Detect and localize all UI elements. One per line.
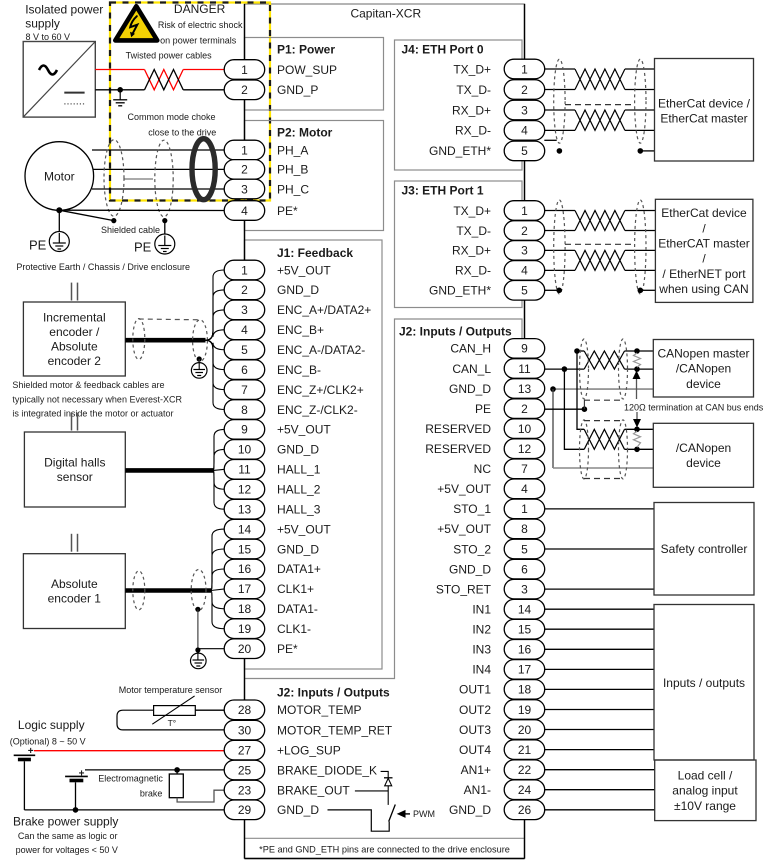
- EtherCat device box 1: [655, 59, 754, 162]
- halls fan wires: [214, 429, 225, 509]
- svg-text:/ EtherNET port: / EtherNET port: [662, 267, 746, 281]
- wire OUT2: [544, 709, 654, 711]
- svg-text:supply: supply: [25, 16, 60, 30]
- svg-text:8: 8: [241, 403, 248, 417]
- inputs outputs box: [654, 605, 754, 761]
- wire GND_D to switch: [328, 810, 390, 831]
- svg-text:encoder 2: encoder 2: [48, 354, 102, 368]
- pin J2-27: [224, 740, 265, 760]
- pin J2-20: [504, 720, 545, 740]
- termination arrow up: [633, 371, 641, 400]
- svg-text:Common mode choke: Common mode choke: [127, 112, 215, 122]
- wire PE1 drop: [58, 210, 60, 231]
- svg-text:device: device: [686, 377, 721, 391]
- svg-text:PE: PE: [29, 237, 47, 252]
- svg-text:ENC_Z-/CLK2-: ENC_Z-/CLK2-: [277, 403, 358, 417]
- svg-text:29: 29: [238, 803, 252, 817]
- svg-text:STO_1: STO_1: [453, 502, 491, 516]
- danger zone dashed border: [110, 3, 270, 201]
- svg-text:power for voltages < 50 V: power for voltages < 50 V: [16, 845, 118, 855]
- svg-text:5: 5: [521, 144, 528, 158]
- junction CAN_H resistor: [634, 348, 640, 354]
- J2 section L-shaped box: [245, 319, 523, 819]
- svg-text:Capitan-XCR: Capitan-XCR: [350, 6, 421, 20]
- CAN shield dashed bottom lower: [584, 478, 623, 480]
- svg-text:T°: T°: [168, 718, 177, 728]
- wire CAN_L to box: [625, 368, 654, 370]
- pin J2-5: [504, 539, 545, 559]
- wire J4 TX_D+: [544, 68, 654, 70]
- wire PE motor: [59, 209, 224, 211]
- svg-text:27: 27: [238, 743, 252, 757]
- junction on GND_P: [117, 87, 123, 93]
- junction CAN_L branch: [562, 366, 568, 372]
- wire PE shield stub: [583, 400, 585, 409]
- main box bottom edge black: [245, 858, 525, 860]
- encoder 1 shield ground: [191, 652, 207, 669]
- motor circle: [25, 142, 94, 211]
- safety controller box: [654, 503, 754, 596]
- CAN shield dashed bottom upper: [584, 399, 623, 401]
- wire CAN_H to box: [625, 350, 654, 352]
- thermistor symbol: [152, 696, 195, 724]
- pin J1-6: [224, 360, 265, 380]
- svg-text:Inputs / outputs: Inputs / outputs: [663, 676, 745, 690]
- CAN twisted pair upper: [584, 351, 624, 369]
- wire bottom to pin 29: [24, 809, 224, 811]
- svg-text:EtherCat device /: EtherCat device /: [658, 97, 751, 111]
- absolute encoder 1 box: [23, 554, 125, 629]
- junction shield 1: [111, 218, 116, 223]
- svg-text:5: 5: [241, 343, 248, 357]
- wire J4 RX_D-: [544, 129, 654, 131]
- encoder 2 shield drain dot: [197, 356, 202, 361]
- CAN shield ellipse low-right: [619, 420, 628, 479]
- svg-text:HALL_3: HALL_3: [277, 503, 321, 517]
- wire IN1: [544, 608, 654, 610]
- svg-text:3: 3: [521, 103, 528, 117]
- junction shield 2: [162, 218, 167, 223]
- svg-text:2: 2: [241, 283, 248, 297]
- EtherCat device box 2: [655, 199, 753, 302]
- svg-text:GND_D: GND_D: [277, 443, 319, 457]
- PE symbol 1: [49, 232, 69, 252]
- wire battery2 to bottom: [75, 782, 77, 810]
- termination arrow down: [633, 412, 641, 428]
- pin J2-10: [504, 419, 545, 439]
- motor cable shield ellipse 2: [155, 140, 173, 217]
- wire GND_P black: [95, 89, 224, 91]
- svg-text:J1: Feedback: J1: Feedback: [277, 246, 353, 260]
- pin P2-4: [224, 201, 265, 221]
- pins J4: [504, 59, 545, 161]
- svg-text:RX_D-: RX_D-: [455, 124, 491, 138]
- svg-text:24: 24: [518, 783, 532, 797]
- svg-text:ENC_A+/DATA2+: ENC_A+/DATA2+: [277, 303, 371, 317]
- wire PH_A: [92, 149, 225, 151]
- svg-text:PE*: PE*: [277, 642, 298, 656]
- J1 section box: [245, 240, 383, 669]
- wire BRAKE_OUT: [355, 790, 388, 792]
- junction battery2 bottom: [73, 807, 79, 813]
- svg-text:Safety controller: Safety controller: [661, 542, 748, 556]
- svg-text:IN1: IN1: [472, 603, 491, 617]
- wire OUT1: [544, 688, 654, 690]
- label Isolated power supply: [25, 3, 103, 31]
- svg-text:11: 11: [518, 362, 531, 376]
- svg-text:ENC_Z+/CLK2+: ENC_Z+/CLK2+: [277, 383, 364, 397]
- digital halls sensor box: [24, 432, 125, 507]
- CAN shield dashed top lower: [584, 420, 623, 422]
- CAN termination resistor upper: [634, 353, 641, 367]
- CAN shield ellipse low-left: [580, 420, 589, 479]
- svg-text:OUT4: OUT4: [459, 743, 491, 757]
- svg-text:TX_D-: TX_D-: [456, 83, 491, 97]
- pin J1-19: [224, 619, 265, 639]
- halls thick cable: [125, 468, 213, 473]
- svg-text:4: 4: [521, 124, 528, 138]
- pin J2-2: [504, 399, 545, 419]
- svg-text:4: 4: [241, 204, 248, 218]
- svg-text:18: 18: [518, 683, 532, 697]
- pin J1-4: [224, 320, 265, 340]
- pin J1-11: [224, 460, 265, 480]
- pin J1-14: [224, 519, 265, 539]
- wire J4 shield to device: [640, 150, 654, 152]
- svg-text:typically not necessary when E: typically not necessary when Everest-XCR: [12, 394, 182, 404]
- pins J3: [504, 201, 545, 300]
- svg-text:GND_ETH*: GND_ETH*: [429, 284, 491, 298]
- svg-text:10: 10: [238, 443, 252, 457]
- svg-text:RESERVED: RESERVED: [425, 442, 491, 456]
- encoder 1 shield ellipse right: [191, 570, 206, 611]
- svg-text:GND_D: GND_D: [277, 803, 319, 817]
- J4 shield dashed link: [565, 104, 634, 106]
- svg-text:1: 1: [521, 502, 528, 516]
- wire pin25 brake supply: [85, 769, 225, 771]
- svg-text:P2: Motor: P2: Motor: [277, 126, 333, 140]
- svg-text:15: 15: [238, 542, 252, 556]
- P1 section box: [245, 38, 384, 111]
- svg-text:9: 9: [521, 342, 528, 356]
- main box right edge black segments: [524, 4, 526, 859]
- pin P2-3: [224, 179, 265, 199]
- load cell box: [655, 760, 756, 821]
- encoder 2 shield drain wire: [198, 359, 200, 364]
- cable marks encoder 1: [72, 534, 78, 552]
- pin J2-29: [224, 800, 265, 820]
- wire J3 RX_D-: [544, 269, 655, 271]
- J3 shield dot right: [638, 288, 644, 294]
- wire CAN lower bottom to box: [625, 448, 654, 450]
- J4 section box: [395, 40, 523, 170]
- J4 twisted pair 1: [575, 69, 625, 90]
- wire brake top: [176, 770, 178, 774]
- svg-text:Motor: Motor: [44, 169, 75, 183]
- wire POW_SUP red: [95, 69, 224, 71]
- svg-text:Isolated power: Isolated power: [25, 3, 103, 17]
- pin J1-12: [224, 479, 265, 499]
- svg-text:1: 1: [241, 143, 248, 157]
- svg-text:*PE and GND_ETH pins are conne: *PE and GND_ETH pins are connected to th…: [259, 845, 510, 855]
- wire PE from pin 2: [544, 408, 584, 410]
- svg-text:15: 15: [518, 623, 532, 637]
- svg-text:Electromagnetic: Electromagnetic: [98, 774, 163, 784]
- svg-text:23: 23: [238, 783, 252, 797]
- svg-text:J3: ETH Port 1: J3: ETH Port 1: [402, 183, 484, 197]
- svg-text:is integrated inside the motor: is integrated inside the motor or actuat…: [12, 409, 173, 419]
- svg-text:CAN_H: CAN_H: [450, 342, 491, 356]
- svg-text:1: 1: [241, 263, 248, 277]
- svg-text:+5V_OUT: +5V_OUT: [277, 263, 331, 277]
- svg-text:3: 3: [521, 582, 528, 596]
- svg-text:+LOG_SUP: +LOG_SUP: [277, 743, 341, 757]
- pin J1-17: [224, 579, 265, 599]
- svg-text:CAN_L: CAN_L: [452, 362, 491, 376]
- wire J3 shield to device: [640, 289, 655, 291]
- wire STO_RET: [544, 588, 654, 590]
- svg-text:analog input: analog input: [672, 784, 738, 798]
- encoder 2 shield ellipse left: [133, 319, 145, 360]
- svg-text:PH_C: PH_C: [277, 182, 309, 196]
- wire STO_2: [544, 548, 654, 550]
- wire OUT4: [544, 749, 654, 751]
- svg-text:GND_D: GND_D: [277, 542, 319, 556]
- J3 shield dot left: [556, 288, 562, 294]
- wire brake to pin 23: [177, 790, 224, 802]
- svg-text:25: 25: [238, 763, 252, 777]
- pin J2-4: [504, 479, 545, 499]
- svg-text:TX_D+: TX_D+: [453, 62, 491, 76]
- pin J1-15: [224, 539, 265, 559]
- svg-text:1: 1: [521, 62, 528, 76]
- incremental encoder box: [23, 302, 125, 376]
- wire +LOG_SUP red: [34, 750, 225, 752]
- cable marks encoder 2: [72, 283, 78, 301]
- wire CAN lower top to box: [625, 428, 654, 430]
- svg-text:4: 4: [521, 482, 528, 496]
- pin J1-10: [224, 440, 265, 460]
- svg-text:3: 3: [241, 182, 248, 196]
- encoder 2 shield ground: [191, 363, 207, 379]
- svg-text:RX_D-: RX_D-: [455, 264, 491, 278]
- svg-text:2: 2: [241, 83, 248, 97]
- P2 section box: [245, 121, 384, 231]
- note separator line: [245, 837, 525, 839]
- wire AN1+: [544, 769, 654, 771]
- junction CAN_H branch: [574, 348, 580, 354]
- CANopen master box: [653, 340, 753, 398]
- wire IN4: [544, 668, 654, 670]
- svg-text:PWM: PWM: [413, 809, 435, 819]
- brake diode: [384, 778, 393, 805]
- svg-text:PH_B: PH_B: [277, 163, 308, 177]
- encoder 1 shield drain dot: [195, 607, 200, 612]
- svg-text:close to the drive: close to the drive: [148, 127, 216, 137]
- svg-text:14: 14: [518, 603, 532, 617]
- pin J2-19: [504, 700, 545, 720]
- svg-text:4: 4: [521, 264, 528, 278]
- svg-text:21: 21: [518, 743, 532, 757]
- svg-text:+: +: [79, 768, 85, 779]
- svg-text:(Optional) 8 ~ 50 V: (Optional) 8 ~ 50 V: [10, 736, 86, 746]
- wire CAN_H segment: [577, 350, 584, 352]
- svg-text:HALL_1: HALL_1: [277, 463, 321, 477]
- pin J2-8: [504, 519, 545, 539]
- svg-text:PE: PE: [475, 402, 491, 416]
- svg-text:EtherCat master: EtherCat master: [660, 112, 747, 126]
- svg-text:19: 19: [518, 703, 532, 717]
- svg-text:RESERVED: RESERVED: [425, 422, 491, 436]
- svg-text:GND_D: GND_D: [449, 382, 491, 396]
- pin J2-30: [224, 720, 265, 740]
- svg-text:Motor temperature sensor: Motor temperature sensor: [119, 685, 223, 695]
- CAN shield ellipse up-left: [580, 339, 589, 399]
- svg-text:8: 8: [521, 522, 528, 536]
- svg-text:ENC_B+: ENC_B+: [277, 323, 324, 337]
- pin J1-8: [224, 400, 265, 420]
- svg-text:HALL_2: HALL_2: [277, 483, 321, 497]
- wire J3 GND_ETH: [544, 289, 559, 291]
- svg-text:6: 6: [521, 562, 528, 576]
- svg-text:ENC_B-: ENC_B-: [277, 363, 321, 377]
- svg-text:10: 10: [518, 422, 532, 436]
- wire GND_D gray to box2: [553, 467, 653, 469]
- pin J2-12: [504, 439, 545, 459]
- pin J2-16: [504, 640, 545, 660]
- svg-text:16: 16: [238, 562, 252, 576]
- motor cable shield ellipse 1: [104, 140, 124, 217]
- svg-text:9: 9: [241, 423, 248, 437]
- svg-text:EtherCat device: EtherCat device: [661, 206, 747, 220]
- junction lower resistor top: [634, 427, 640, 433]
- svg-text:2: 2: [521, 224, 528, 238]
- pin J2-21: [504, 740, 545, 760]
- svg-text:+5V_OUT: +5V_OUT: [277, 522, 331, 536]
- svg-text:Absolute: Absolute: [51, 340, 98, 354]
- svg-text:11: 11: [238, 463, 251, 477]
- svg-text:16: 16: [518, 643, 532, 657]
- svg-text:AN1+: AN1+: [461, 763, 491, 777]
- wire thermistor to pin 28: [195, 709, 224, 711]
- junction brake wire: [174, 767, 180, 773]
- svg-text:ENC_A-/DATA2-: ENC_A-/DATA2-: [277, 343, 365, 357]
- svg-text:OUT3: OUT3: [459, 723, 491, 737]
- CAN branch vertical CAN_L: [564, 369, 584, 449]
- J3 twisted pair 2: [575, 250, 625, 270]
- svg-text:Digital halls: Digital halls: [44, 456, 105, 470]
- pin J1-3: [224, 300, 265, 320]
- J4 shield dot left: [557, 148, 563, 154]
- J4 shield ellipse right: [635, 59, 646, 143]
- svg-text:BRAKE_OUT: BRAKE_OUT: [277, 783, 350, 797]
- svg-text:6: 6: [241, 363, 248, 377]
- svg-text:PE*: PE*: [277, 204, 298, 218]
- svg-text:17: 17: [238, 582, 252, 596]
- wire shield2 drop: [164, 221, 166, 234]
- junction GND_D: [550, 386, 556, 392]
- wire OUT3: [544, 729, 654, 731]
- junction PE shield: [582, 406, 588, 412]
- svg-text:Can the same as logic or: Can the same as logic or: [18, 831, 118, 841]
- drive enclosure main box Capitan-XCR: [245, 4, 525, 859]
- svg-text:20: 20: [518, 723, 532, 737]
- svg-text:12: 12: [518, 442, 532, 456]
- pin J2-11: [504, 359, 545, 379]
- pin J1-20: [224, 639, 265, 659]
- pin J2-9: [504, 339, 545, 359]
- svg-text:DATA1+: DATA1+: [277, 562, 321, 576]
- svg-text:5: 5: [521, 284, 528, 298]
- wire thermistor loop to pin 30: [117, 710, 225, 730]
- svg-text:POW_SUP: POW_SUP: [277, 63, 337, 77]
- pin J2-13: [504, 379, 545, 399]
- pin J2-18: [504, 680, 545, 700]
- pin J2-15: [504, 619, 545, 639]
- PWM switch blade: [389, 805, 396, 822]
- svg-text:30: 30: [238, 723, 252, 737]
- svg-text:DANGER: DANGER: [174, 2, 226, 16]
- wire J3 RX_D+: [544, 249, 655, 251]
- svg-text:encoder /: encoder /: [49, 325, 100, 339]
- svg-text:STO_RET: STO_RET: [436, 582, 492, 596]
- svg-text:MOTOR_TEMP_RET: MOTOR_TEMP_RET: [277, 723, 393, 737]
- junction lower resistor bottom: [634, 447, 640, 453]
- svg-text:OUT1: OUT1: [459, 683, 491, 697]
- J4 twisted pair 2: [575, 110, 625, 130]
- svg-text:7: 7: [521, 462, 528, 476]
- wire CAN_L from pin 11: [544, 368, 584, 370]
- svg-text:+5V_OUT: +5V_OUT: [437, 522, 491, 536]
- svg-text:13: 13: [238, 503, 252, 517]
- twisted power cables symbol: [145, 70, 184, 90]
- svg-text:GND_ETH*: GND_ETH*: [429, 144, 491, 158]
- pin P2-1: [224, 140, 265, 160]
- svg-text:28: 28: [238, 703, 252, 717]
- svg-text:Absolute: Absolute: [51, 577, 98, 591]
- pin J1-2: [224, 280, 265, 300]
- svg-text:NC: NC: [474, 462, 492, 476]
- svg-text:19: 19: [238, 622, 252, 636]
- pin P2-2: [224, 160, 265, 180]
- shield link line: [124, 178, 153, 180]
- svg-text:encoder 1: encoder 1: [48, 592, 102, 606]
- svg-text:CANopen master: CANopen master: [657, 346, 749, 360]
- pin J1-1: [224, 260, 265, 280]
- svg-text:J2: Inputs / Outputs: J2: Inputs / Outputs: [277, 685, 390, 699]
- svg-text:7: 7: [241, 383, 248, 397]
- J3 shield ellipse left: [554, 200, 565, 294]
- encoder 2 shield ellipse right: [193, 320, 208, 362]
- encoder 1 shield drain wire: [197, 609, 199, 650]
- J3 shield ellipse right: [635, 200, 646, 294]
- wire IN2: [544, 628, 654, 630]
- encoder 1 thick cable: [125, 588, 211, 593]
- svg-text:on power terminals: on power terminals: [160, 35, 237, 45]
- encoder 2 shield dashed top: [139, 318, 200, 321]
- PWM arrow: [397, 810, 410, 818]
- J4 GND_ETH stub: [544, 139, 556, 141]
- svg-text:4: 4: [241, 323, 248, 337]
- pin J2-26: [504, 800, 545, 820]
- svg-text:12: 12: [238, 483, 252, 497]
- main box left edge black segments: [244, 4, 246, 859]
- svg-text:DATA1-: DATA1-: [277, 602, 318, 616]
- pin J1-18: [224, 599, 265, 619]
- svg-text:GND_P: GND_P: [277, 83, 318, 97]
- svg-text:/: /: [702, 252, 706, 266]
- CAN shield ellipse up-right: [619, 339, 628, 399]
